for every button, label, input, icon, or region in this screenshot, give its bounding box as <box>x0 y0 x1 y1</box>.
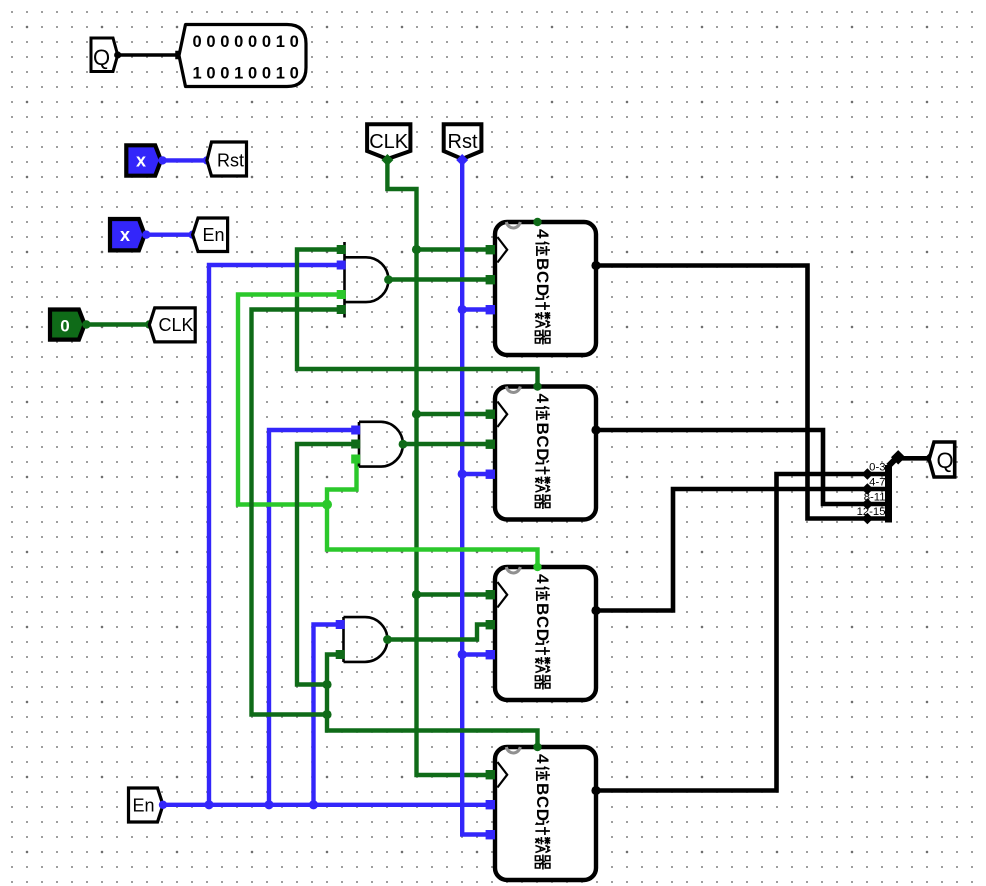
wire Rst tunnel down <box>462 160 491 835</box>
splitter pin diamond 8-11 <box>862 498 874 510</box>
svg-text:x: x <box>120 225 130 245</box>
probe (16-bit value display) <box>179 25 306 87</box>
wire X2 to En tunnel <box>146 232 192 236</box>
counter U1 output pin out <box>591 261 600 270</box>
wire Rst branch to counter U2 <box>462 472 491 476</box>
bus U4.out to splitter 0-3 <box>596 474 885 791</box>
wire end dot En bottom <box>159 801 167 809</box>
wire CLK branch to counter U3 <box>417 592 492 596</box>
wire end dot X1 <box>158 156 166 164</box>
BCD counter U1 label 4位BCD计数器 <box>533 229 552 345</box>
counter U4 enable pin en <box>486 800 495 809</box>
AND gate G1 body <box>345 242 389 318</box>
tunnel Q (to probe) <box>91 38 118 72</box>
junction CLK-U3 <box>412 590 421 599</box>
AND gate G2 input pin 3 <box>351 455 360 464</box>
wire end dot CLK tunnel left <box>145 320 153 328</box>
wire Q-tunnel to probe <box>118 53 177 57</box>
BCD counter U4 body <box>495 747 596 880</box>
BCD counter U2 label 4位BCD计数器 <box>533 394 552 510</box>
BCD counter U4 clock triangle <box>497 762 507 788</box>
svg-text:12-15: 12-15 <box>857 506 886 518</box>
junction U4.ovf-G2 <box>322 680 331 689</box>
splitter pin diamond 0-3 <box>862 468 874 480</box>
BCD counter U3 gray arc marker <box>506 567 520 573</box>
wire end diamond CLK tunnel <box>381 154 393 166</box>
BCD counter U4 gray arc marker <box>506 747 520 753</box>
output Q <box>929 442 955 477</box>
splitter output diamond <box>891 450 905 464</box>
wire U3.ovf trunk <box>327 505 538 568</box>
wire En up to AND G1 <box>209 265 337 805</box>
counter U4 clear pin clr <box>486 830 495 839</box>
BCD counter U4 label 4位BCD计数器 <box>533 754 552 870</box>
BCD counter U1 body <box>495 222 596 355</box>
wire G2.out to U2.en <box>403 442 491 446</box>
tunnel CLK (top) <box>367 124 410 159</box>
wire Rst branch to counter U3 <box>462 652 491 656</box>
svg-text:En: En <box>202 225 224 245</box>
counter U3 overflow pin ovf <box>533 563 541 571</box>
svg-text:4: 4 <box>533 754 552 764</box>
junction En-G3 <box>309 800 318 809</box>
probe input pin <box>175 51 184 60</box>
svg-text:CLK: CLK <box>158 315 193 335</box>
wire end dot En tunnel <box>188 231 196 239</box>
tunnel Rst (left) <box>207 142 247 176</box>
wire CLK branch to counter U1 <box>417 247 492 251</box>
wire end diamond Rst tunnel <box>456 154 468 166</box>
counter U4 overflow pin ovf <box>533 743 541 751</box>
splitter/merger bar <box>885 465 892 523</box>
wire end dot Rst tunnel <box>203 156 211 164</box>
AND gate G1 input pin 4 <box>337 305 346 314</box>
AND gate G3 input pin 1 <box>336 620 345 629</box>
bus U2.out to splitter 8-11 <box>596 430 885 504</box>
wire U3.ovf to G1.in3 <box>238 295 337 505</box>
svg-text:Rst: Rst <box>217 151 244 171</box>
AND gate G3 output pin <box>383 635 392 644</box>
counter U3 enable pin en <box>486 620 495 629</box>
counter U2 output pin out <box>591 425 600 434</box>
wire U4.ovf trunk <box>327 655 538 748</box>
svg-text:Q: Q <box>93 45 110 70</box>
junction Rst-U3 <box>458 650 467 659</box>
wire U3.ovf to G2.in3 <box>327 459 357 505</box>
svg-text:BCD: BCD <box>533 603 552 642</box>
counter U3 clock pin C <box>486 590 495 599</box>
wire G3.out to U3.en <box>388 625 492 640</box>
counter U1 overflow pin ovf <box>533 218 541 226</box>
wire end dot Q tunnel <box>114 51 121 58</box>
wire end dot CLK0 <box>82 320 90 328</box>
splitter pin diamond 4-7 <box>862 483 874 495</box>
wire U2.ovf to G1.in1 <box>297 250 538 387</box>
svg-text:10010010: 10010010 <box>192 65 303 83</box>
AND gate G1 input pin 2 <box>337 261 346 270</box>
tunnel En (bottom) <box>129 788 164 822</box>
counter U4 output pin out <box>591 786 600 795</box>
svg-text:BCD: BCD <box>533 423 552 462</box>
svg-text:En: En <box>132 796 154 816</box>
svg-text:8-11: 8-11 <box>864 492 886 504</box>
BCD counter U3 body <box>495 567 596 700</box>
BCD counter U2 clock triangle <box>497 402 507 428</box>
wire Rst branch to counter U1 <box>462 307 491 311</box>
wire X1 to Rst tunnel <box>163 158 208 162</box>
wire En up to AND G3 <box>314 625 337 805</box>
BCD counter U1 clock triangle <box>497 237 507 263</box>
AND gate G1 output pin <box>384 275 393 284</box>
wire U4.ovf to G2.in2 <box>297 444 352 685</box>
wire G1.out to U1.en <box>389 277 492 281</box>
junction CLK-U1 <box>412 245 421 254</box>
junction En-G1 <box>204 800 213 809</box>
bus U3.out to splitter 4-7 <box>596 489 885 611</box>
AND gate G3 body <box>344 617 388 662</box>
input X2 (En source, high-Z) <box>110 219 145 250</box>
AND gate G2 input pin 2 <box>351 440 360 449</box>
counter U1 enable pin en <box>486 275 495 284</box>
counter U3 clear pin clr <box>486 650 495 659</box>
splitter pin diamond 12-15 <box>862 513 874 525</box>
svg-text:0: 0 <box>60 317 69 336</box>
input X1 (Rst source, high-Z) <box>126 145 161 175</box>
svg-text:00000010: 00000010 <box>192 33 303 51</box>
tunnel En (left) <box>193 218 228 252</box>
AND gate G2 output pin <box>399 440 408 449</box>
wire end dot X2 <box>142 231 150 239</box>
AND gate G3 input pin 2 <box>336 650 345 659</box>
input CLK0 (clock source, value 0) <box>50 310 85 340</box>
tunnel Rst (top) <box>444 124 482 159</box>
junction U4.ovf-G1 <box>322 710 331 719</box>
counter U2 clear pin clr <box>486 470 495 479</box>
wire CLK branch to counter U2 <box>417 412 492 416</box>
counter U1 clear pin clr <box>486 305 495 314</box>
counter U2 clock pin C <box>486 410 495 419</box>
AND gate G2 body <box>359 422 403 467</box>
svg-text:x: x <box>136 151 146 171</box>
BCD counter U1 gray arc marker <box>506 222 520 228</box>
svg-text:BCD: BCD <box>533 258 552 297</box>
BCD counter U3 clock triangle <box>497 582 507 608</box>
counter U1 clock pin C <box>486 245 495 254</box>
BCD counter U2 body <box>495 387 596 520</box>
counter U2 overflow pin ovf <box>533 382 541 390</box>
bus U1.out to splitter 12-15 <box>596 266 885 519</box>
wire En main line <box>163 803 491 807</box>
counter U2 enable pin en <box>486 440 495 449</box>
svg-text:4: 4 <box>533 229 552 239</box>
junction U3.ovf <box>322 500 332 510</box>
svg-text:BCD: BCD <box>533 783 552 822</box>
wire CLK0 to CLK tunnel <box>86 322 149 326</box>
svg-text:Q: Q <box>936 448 953 473</box>
counter U3 output pin out <box>591 606 600 615</box>
AND gate G1 input pin 3 <box>337 290 346 299</box>
wire end diamond output Q <box>924 453 934 463</box>
junction CLK-U2 <box>412 409 421 418</box>
AND gate G1 input pin 1 <box>337 245 346 254</box>
BCD counter U2 gray arc marker <box>506 387 520 393</box>
bus splitter output diagonal <box>889 456 899 466</box>
counter U4 clock pin C <box>486 770 495 779</box>
AND gate G2 input pin 1 <box>351 426 360 435</box>
tunnel CLK (left) <box>149 308 195 342</box>
svg-text:0-3: 0-3 <box>869 462 885 474</box>
wire CLK tunnel down <box>387 160 491 775</box>
svg-text:4: 4 <box>533 574 552 584</box>
wire En up to AND G2 <box>269 430 352 805</box>
svg-text:4: 4 <box>533 394 552 404</box>
junction Rst-U2 <box>458 469 467 478</box>
svg-text:4-7: 4-7 <box>869 477 885 489</box>
wire U4.ovf to G1.in4 <box>252 310 338 715</box>
bus splitter to output Q <box>898 456 929 461</box>
BCD counter U3 label 4位BCD计数器 <box>533 574 552 690</box>
svg-text:Rst: Rst <box>448 131 478 153</box>
svg-text:CLK: CLK <box>369 131 409 153</box>
junction Rst-U1 <box>458 305 467 314</box>
junction En-G2 <box>264 800 273 809</box>
